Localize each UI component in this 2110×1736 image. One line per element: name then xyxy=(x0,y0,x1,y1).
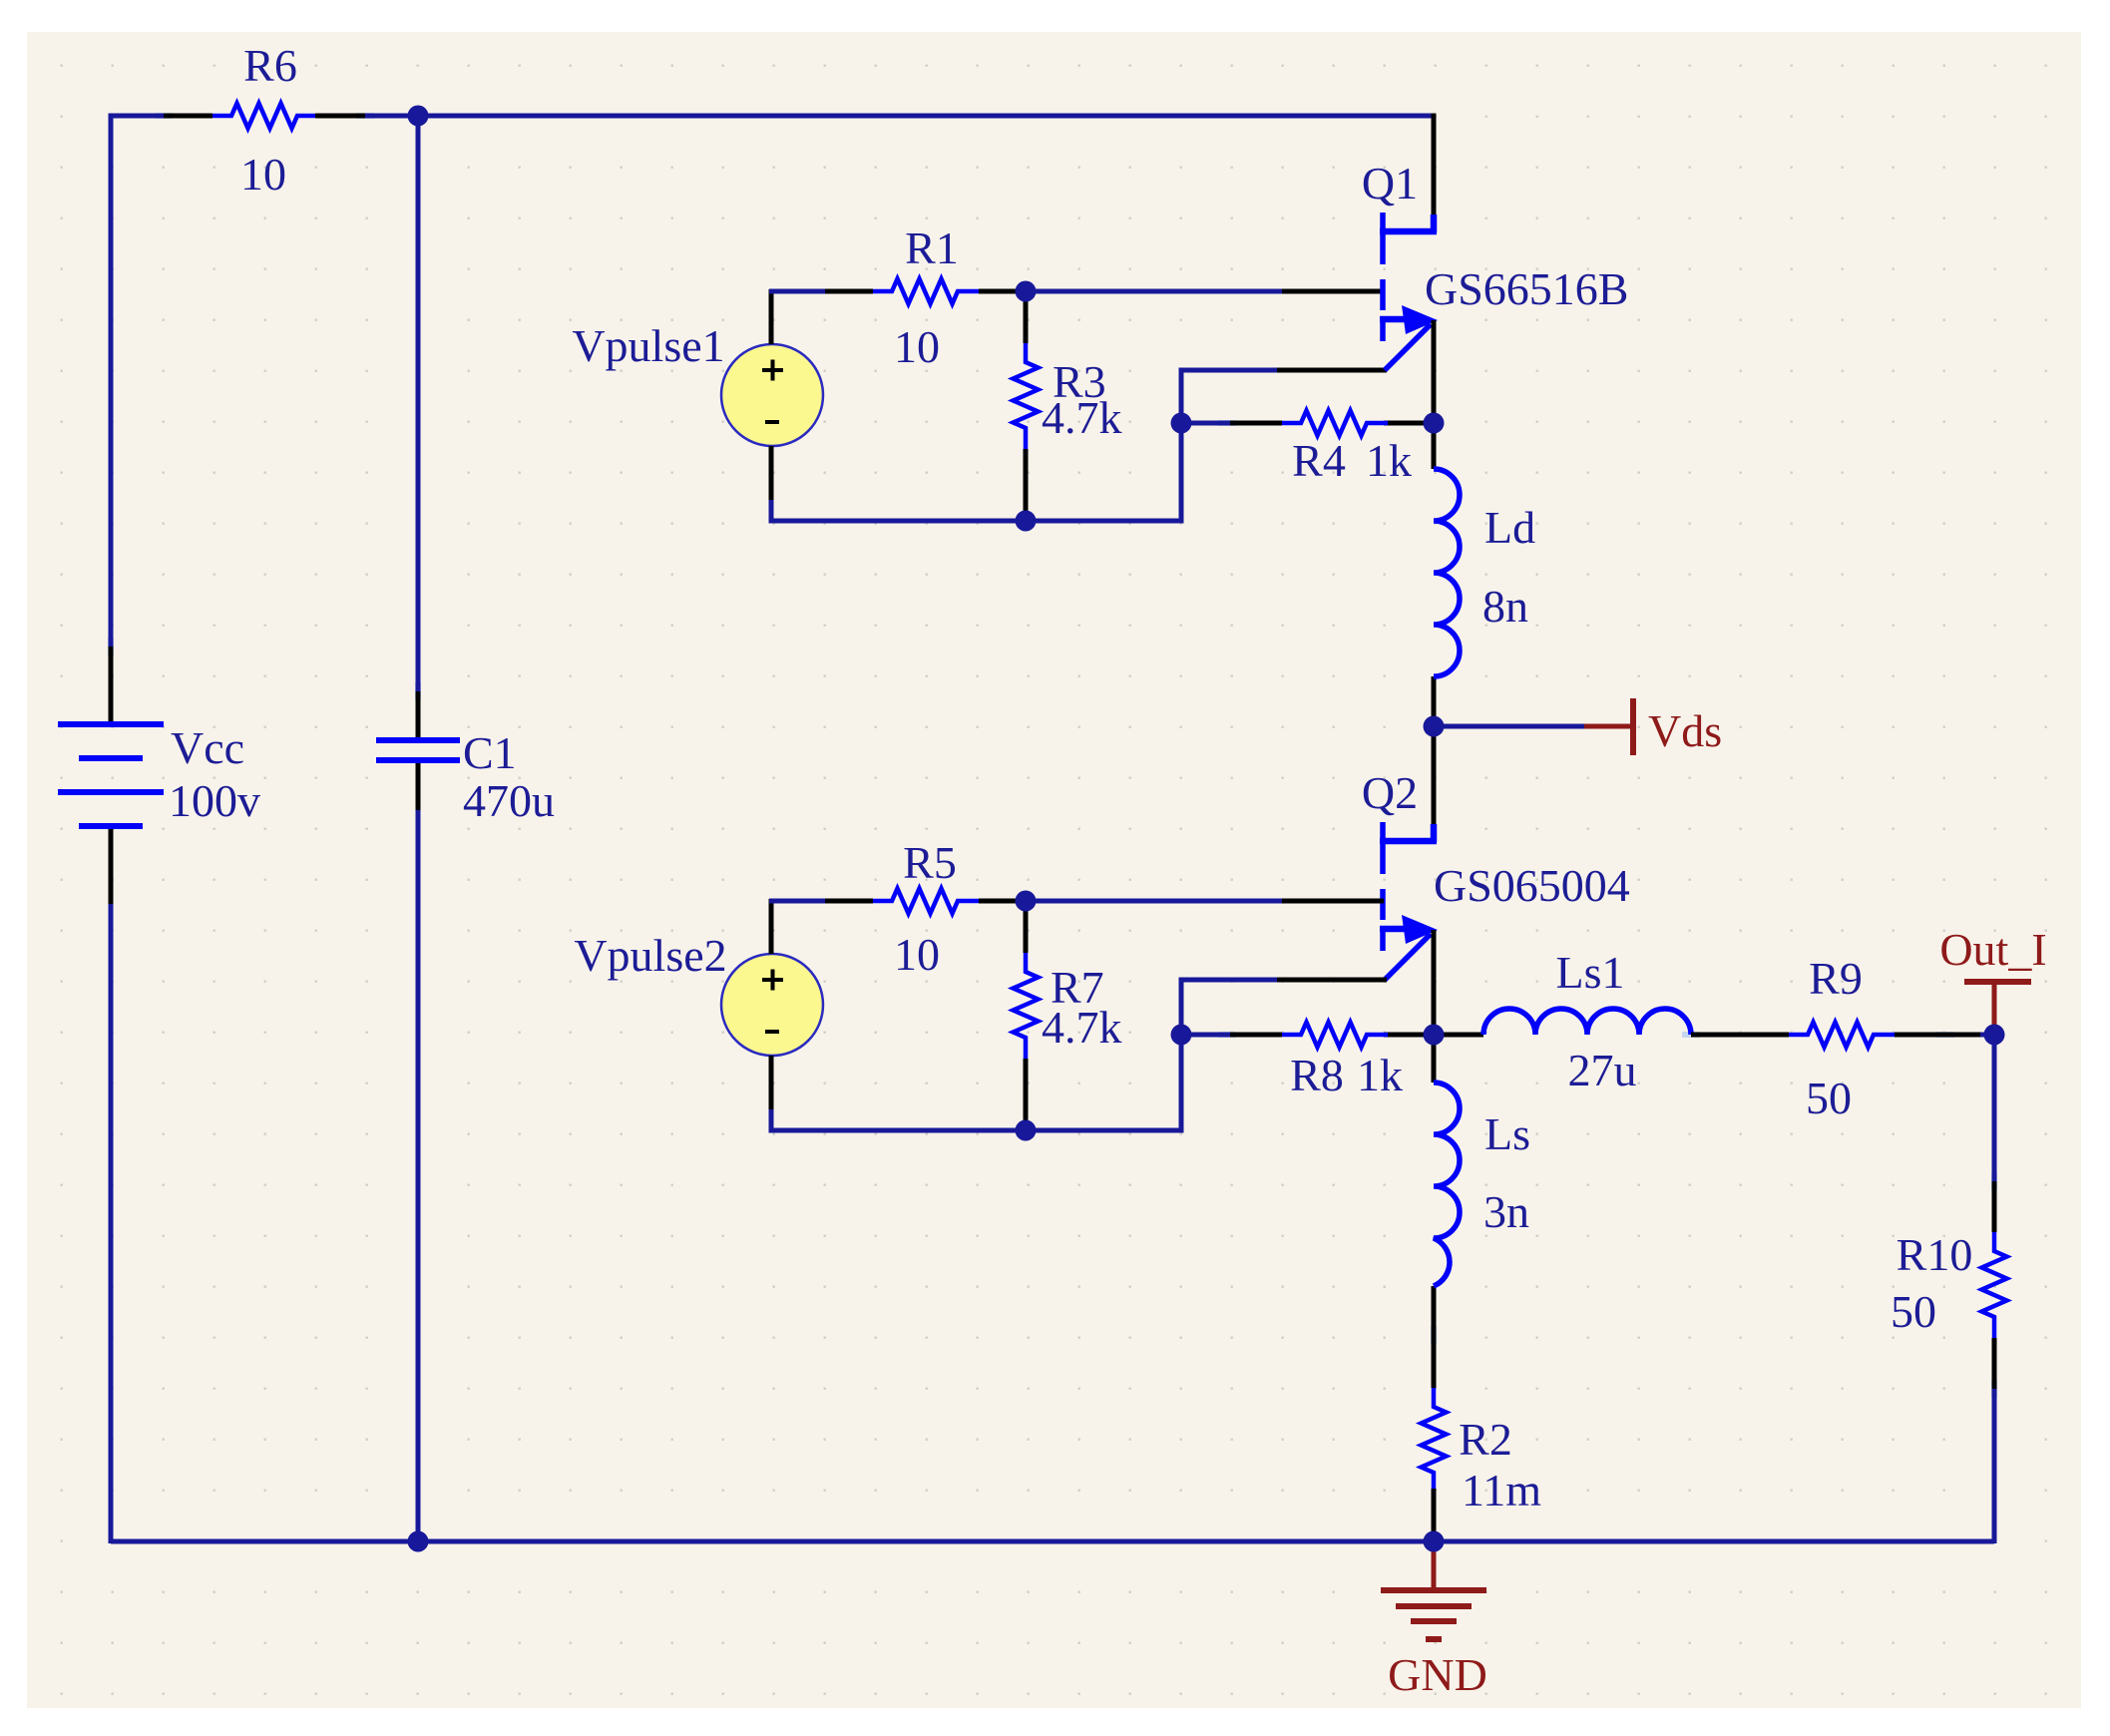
wire: Out_I node down to R10 xyxy=(1992,1035,1997,1181)
wire: Vpulse2 bottom loop xyxy=(771,980,1282,1130)
resistor R3 xyxy=(1014,343,1039,449)
resistor R3 pins xyxy=(1024,291,1029,521)
wire: top rail xyxy=(111,114,1434,119)
svg-text:Q2: Q2 xyxy=(1362,767,1418,818)
svg-text:3n: 3n xyxy=(1483,1186,1529,1237)
svg-text:C1: C1 xyxy=(463,727,517,778)
wire: R5 junction to Q2 gate xyxy=(1026,899,1282,904)
svg-text:Ls1: Ls1 xyxy=(1556,947,1625,998)
junction dot bottom rail C1 xyxy=(408,1531,429,1552)
Vpulse2 bottom pin xyxy=(769,1056,774,1109)
svg-text:Vpulse2: Vpulse2 xyxy=(574,930,726,981)
wire: Vpulse1 bottom loop xyxy=(771,370,1282,521)
resistor R2 bottom pin xyxy=(1432,1489,1437,1541)
Q1 gate pin xyxy=(1282,289,1384,294)
Vpulse1 top pin xyxy=(769,289,774,344)
resistor R6 xyxy=(212,104,315,129)
transistor Q2 drain pin xyxy=(1432,726,1437,824)
wire: Q2 source to R8 node xyxy=(1432,930,1437,1035)
inductor Ld xyxy=(1434,469,1460,676)
svg-text:GS66516B: GS66516B xyxy=(1425,263,1628,314)
svg-text:Q1: Q1 xyxy=(1362,158,1418,209)
wire: Vds tap xyxy=(1434,724,1584,729)
svg-text:R6: R6 xyxy=(243,40,297,91)
junction dot Out_I xyxy=(1984,1025,2005,1046)
wire: R8 left xyxy=(1181,1033,1230,1038)
svg-text:R4: R4 xyxy=(1292,435,1346,486)
inductor Ls pins xyxy=(1432,1035,1437,1388)
svg-text:470u: 470u xyxy=(463,775,555,826)
resistor R2 xyxy=(1422,1388,1447,1489)
junction dot R5/R7 xyxy=(1016,891,1037,912)
wire: R4 left xyxy=(1181,421,1230,426)
svg-text:50: 50 xyxy=(1891,1286,1936,1337)
svg-text:Vpulse1: Vpulse1 xyxy=(572,320,724,371)
resistor R1 xyxy=(873,279,979,304)
svg-text:Vcc: Vcc xyxy=(171,722,244,773)
transistor Q1 GS66516B symbol xyxy=(1380,213,1438,370)
junction dot R1/R3 xyxy=(1016,281,1037,302)
resistor R5 pins xyxy=(825,899,1026,904)
junction dot R4 right xyxy=(1424,413,1445,434)
svg-text:Ld: Ld xyxy=(1484,502,1535,553)
resistor R8 xyxy=(1282,1023,1388,1048)
transistor Q2 GS065004 symbol xyxy=(1380,822,1438,980)
battery Vcc xyxy=(58,724,164,826)
wire: left vertical xyxy=(109,114,114,1544)
wire: C1 branch xyxy=(416,116,421,1541)
wire: R10 to bottom rail xyxy=(1992,1389,1997,1543)
svg-text:10: 10 xyxy=(894,321,940,372)
svg-text:50: 50 xyxy=(1806,1073,1852,1123)
capacitor C1 xyxy=(376,740,460,760)
power port Out_I xyxy=(1964,982,2031,1030)
svg-text:GND: GND xyxy=(1388,1649,1487,1700)
resistor R10 xyxy=(1982,1232,2007,1338)
Q1 source pin xyxy=(1277,368,1387,373)
svg-text:10: 10 xyxy=(240,149,286,200)
resistor R7 xyxy=(1014,953,1039,1059)
junction dot R8 right xyxy=(1424,1025,1445,1046)
capacitor C1 pins xyxy=(416,691,421,810)
Vpulse1 plus sign xyxy=(762,360,783,381)
Vpulse2 minus sign xyxy=(765,1030,779,1034)
junction dot Vds tap xyxy=(1424,716,1445,737)
resistor R5 xyxy=(873,889,979,914)
junction dot loop2/R7 xyxy=(1016,1120,1037,1141)
svg-text:R2: R2 xyxy=(1459,1414,1512,1465)
svg-text:100v: 100v xyxy=(169,775,260,826)
resistor R6 pins xyxy=(164,114,365,119)
resistor R4 xyxy=(1282,411,1388,436)
svg-text:Ls: Ls xyxy=(1484,1108,1530,1159)
inductor Ls1 right pin xyxy=(1691,1033,1789,1038)
svg-text:10: 10 xyxy=(894,929,940,980)
svg-text:Out_I: Out_I xyxy=(1939,924,2046,975)
junction dot top rail xyxy=(408,106,429,127)
svg-text:4.7k: 4.7k xyxy=(1042,392,1122,443)
resistor R9 right pin xyxy=(1895,1033,1980,1038)
svg-text:27u: 27u xyxy=(1568,1045,1637,1095)
ground GND symbol xyxy=(1381,1546,1486,1639)
voltage source Vpulse2 xyxy=(721,954,823,1056)
wire: Q1 source to R4 node xyxy=(1432,320,1437,423)
wire: R9 to Out_I node xyxy=(1980,1033,1994,1038)
wire: bottom rail xyxy=(111,1539,1994,1544)
transistor Q1 drain pin xyxy=(1432,114,1437,216)
svg-text:GS065004: GS065004 xyxy=(1434,860,1630,911)
junction dot bottom rail GND xyxy=(1424,1531,1445,1552)
Q2 gate pin xyxy=(1282,899,1384,904)
junction dot loop1/R3 xyxy=(1016,511,1037,532)
inductor Ls xyxy=(1434,1083,1460,1286)
wire: Vpulse2 to R5 xyxy=(769,899,825,904)
svg-text:R5: R5 xyxy=(903,837,957,888)
inductor Ls1 xyxy=(1483,1009,1691,1035)
svg-text:R10: R10 xyxy=(1897,1229,1973,1280)
power port Vds xyxy=(1584,698,1633,755)
resistor R8 pins xyxy=(1230,1033,1434,1038)
Q2 source pin xyxy=(1277,978,1387,983)
resistor R4 pins xyxy=(1230,421,1434,426)
svg-text:R1: R1 xyxy=(905,222,959,273)
resistor R9 xyxy=(1789,1023,1895,1048)
svg-text:R8: R8 xyxy=(1290,1050,1344,1100)
voltage source Vpulse1 xyxy=(721,344,823,446)
resistor R10 pins xyxy=(1992,1181,1997,1389)
svg-text:11m: 11m xyxy=(1462,1465,1541,1516)
pin hotspot marks xyxy=(111,116,1994,1398)
junction dot R8 left xyxy=(1171,1025,1192,1046)
battery Vcc pins xyxy=(109,647,114,904)
Vpulse2 plus sign xyxy=(762,970,783,991)
Vpulse1 minus sign xyxy=(765,420,779,424)
inductor Ls1 left pin xyxy=(1434,1033,1483,1038)
svg-text:Vds: Vds xyxy=(1648,705,1722,756)
svg-text:8n: 8n xyxy=(1482,581,1528,632)
svg-text:R9: R9 xyxy=(1809,953,1863,1004)
junction dot R4 left xyxy=(1171,413,1192,434)
Vpulse1 bottom pin xyxy=(769,446,774,500)
svg-text:4.7k: 4.7k xyxy=(1042,1002,1122,1053)
svg-text:1k: 1k xyxy=(1366,435,1412,486)
svg-text:1k: 1k xyxy=(1357,1050,1403,1100)
Vpulse2 top pin xyxy=(769,899,774,954)
wire: R1 junction to Q1 gate xyxy=(1026,289,1282,294)
inductor Ld pins xyxy=(1432,423,1437,726)
resistor R1 pins xyxy=(825,289,1026,294)
resistor R7 pins xyxy=(1024,901,1029,1130)
wire: Vpulse1 to R1 xyxy=(769,289,825,294)
